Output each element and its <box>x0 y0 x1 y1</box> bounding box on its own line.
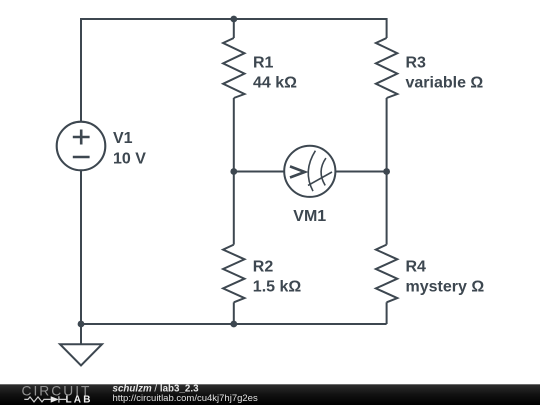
wire VM1 right terminal to node C <box>335 171 386 173</box>
junction node R2 bottom <box>230 321 237 328</box>
svg-text:10 V: 10 V <box>113 151 146 168</box>
wire left rail lower (V1 bottom to ground node) <box>80 170 82 324</box>
svg-text:LAB: LAB <box>66 394 93 405</box>
svg-text:VM1: VM1 <box>293 208 326 225</box>
junction node C (R3/R4/VM1) <box>383 168 390 175</box>
wire R4 top lead from node C <box>386 172 388 245</box>
resistor R4 <box>376 245 397 303</box>
svg-text:variable Ω: variable Ω <box>406 75 484 92</box>
resistor R2 <box>223 245 244 303</box>
svg-text:1.5 kΩ: 1.5 kΩ <box>253 279 302 296</box>
label V1 10 V <box>113 130 146 168</box>
wire node B to VM1 left terminal <box>234 171 284 173</box>
resistor R1 <box>223 38 244 98</box>
junction node top (R1 tap on top rail) <box>230 16 237 23</box>
wire R3 bottom lead to node C <box>386 98 388 172</box>
wire R2 top lead from node B <box>233 172 235 245</box>
CircuitLab logo <box>22 383 93 405</box>
label R4 mystery Ohm <box>406 259 485 296</box>
svg-text:R1: R1 <box>253 55 274 72</box>
wire R2 bottom lead <box>233 302 235 324</box>
label R3 variable Ohm <box>406 55 484 92</box>
svg-text:44 kΩ: 44 kΩ <box>253 75 297 92</box>
label VM1 <box>293 208 326 225</box>
wire R1 top lead <box>233 19 235 38</box>
svg-text:V1: V1 <box>113 130 133 147</box>
junction node ground <box>78 321 85 328</box>
wire R1 bottom lead to node B <box>233 98 235 172</box>
label R1 44 kOhm <box>253 55 297 92</box>
svg-text:R2: R2 <box>253 259 274 276</box>
svg-text:R4: R4 <box>406 259 427 276</box>
schematic URL text <box>113 393 258 404</box>
svg-text:http://circuitlab.com/cu4kj7hj: http://circuitlab.com/cu4kj7hj7g2es <box>113 393 258 404</box>
wire left rail upper (V1 top lead) <box>80 18 82 122</box>
junction node B (R1/R2/VM1) <box>230 168 237 175</box>
ground <box>60 324 102 365</box>
footer bar <box>0 384 540 405</box>
svg-text:R3: R3 <box>406 55 427 72</box>
label R2 1.5 kOhm <box>253 259 302 296</box>
voltage source V1 <box>57 122 106 171</box>
wire bottom rail <box>81 323 387 325</box>
wire R3 top lead <box>386 18 388 38</box>
svg-text:mystery Ω: mystery Ω <box>406 279 485 296</box>
wire top rail from V1 top to R3 top <box>81 18 387 20</box>
wire R4 bottom lead <box>386 302 388 324</box>
schematic title text <box>113 383 200 394</box>
voltmeter VM1 <box>284 146 335 197</box>
resistor R3 <box>376 38 397 98</box>
